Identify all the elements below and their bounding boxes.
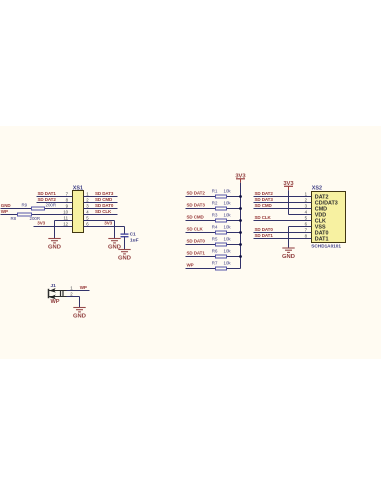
svg-text:R1: R1 [212, 189, 218, 194]
pin name CMD [315, 206, 327, 212]
svg-text:SCHD1A0101: SCHD1A0101 [311, 244, 341, 249]
pin name DAT0 [315, 230, 329, 236]
net label SD DAT2 [38, 197, 57, 202]
resistor R9 200R [22, 202, 57, 210]
svg-text:XS1: XS1 [73, 185, 83, 191]
net label SD DAT1 [38, 191, 57, 196]
connector XS1 [73, 185, 84, 232]
resistor R7 10k [212, 261, 232, 270]
wire net SD_DAT1 to XS1 pin 7 [37, 196, 73, 198]
pin number 1 of XS2 [305, 191, 308, 196]
svg-text:GND: GND [282, 254, 295, 260]
wire net SD_CMD to XS2 pin 3 [254, 208, 312, 210]
ground GND at XS1 pin 11 [48, 239, 61, 251]
net label WP mid [187, 263, 194, 268]
wire J1 pin 2 to ground [67, 297, 80, 308]
pin number 7 of XS2 [305, 227, 308, 232]
svg-text:SD DAT2: SD DAT2 [255, 191, 274, 196]
junction dot R2 to bus [239, 207, 242, 210]
net label SD DAT1 mid [187, 251, 206, 256]
wire net SD_DAT0 to XS2 pin 7 [254, 232, 312, 234]
wire XS1 pin 3 net SD_DAT0 [84, 208, 118, 210]
svg-text:SD DAT0: SD DAT0 [95, 203, 114, 208]
svg-text:GND: GND [118, 256, 131, 262]
svg-text:GND: GND [48, 245, 61, 251]
svg-text:R8: R8 [11, 216, 17, 221]
junction dot R4 to bus [239, 231, 242, 234]
svg-text:SD DAT0: SD DAT0 [187, 239, 206, 244]
pin number 7 [66, 191, 69, 196]
net label SD CLK [95, 209, 112, 214]
resistor R6 10k [212, 249, 232, 258]
net label SD DAT0 mid [187, 239, 206, 244]
switch J1 write protect [49, 283, 67, 299]
wire net SD_CMD to R3 [186, 220, 241, 222]
wire net SD_DAT3 to R2 [186, 208, 241, 210]
svg-text:10k: 10k [224, 261, 232, 266]
svg-text:1uF: 1uF [130, 237, 139, 243]
svg-text:R2: R2 [212, 201, 218, 206]
svg-text:J1: J1 [51, 283, 57, 289]
svg-text:SD CMD: SD CMD [187, 215, 205, 220]
svg-text:3V3: 3V3 [37, 221, 45, 226]
ground GND below XS2 [282, 248, 295, 260]
svg-text:10k: 10k [224, 237, 232, 242]
wire net SD_DAT2 to XS2 pin 1 [254, 196, 312, 198]
wire net SD_DAT0 to R5 [186, 244, 241, 246]
wire J1 pin 1 net WP [67, 290, 90, 292]
svg-text:R6: R6 [212, 249, 218, 254]
label WP below J1 [51, 299, 60, 305]
pin number 8 [66, 197, 69, 202]
ground GND below J1 [73, 308, 86, 320]
pin name CLK [315, 218, 326, 224]
svg-text:SD DAT0: SD DAT0 [255, 227, 274, 232]
connector XS2 [311, 186, 345, 249]
svg-text:SD DAT2: SD DAT2 [187, 191, 206, 196]
pin number 3 [86, 203, 89, 208]
svg-text:SD DAT1: SD DAT1 [255, 233, 274, 238]
capacitor C1 1uF [121, 232, 139, 244]
net label SD DAT1 right [255, 233, 274, 238]
resistor R2 10k [212, 201, 232, 210]
pin number 9 [66, 203, 69, 208]
pin number 6 [86, 221, 89, 226]
svg-text:GND: GND [1, 203, 12, 208]
pin number 6 of XS2 [305, 221, 308, 226]
svg-text:WP: WP [1, 209, 8, 214]
net label SD CMD right [255, 203, 273, 208]
net label WP at J1 [80, 285, 87, 290]
net label SD DAT0 right [255, 227, 274, 232]
svg-text:SD DAT1: SD DAT1 [187, 251, 206, 256]
wire XS1 pin 6 net 3V3 to capacitor C1 [84, 227, 125, 234]
svg-text:DAT1: DAT1 [315, 236, 329, 242]
pin number 3 of XS2 [305, 203, 308, 208]
net label 3V3 right [104, 221, 112, 226]
wire XS1 pin 2 net SD_CMD [84, 202, 118, 204]
pin number 12 [63, 221, 68, 226]
svg-text:10k: 10k [224, 213, 232, 218]
wire WP through R8 to XS1 pin 10 [1, 214, 73, 216]
svg-text:SD DAT3: SD DAT3 [187, 203, 206, 208]
svg-text:SD DAT2: SD DAT2 [38, 197, 57, 202]
pin number 2 of XS2 [305, 197, 308, 202]
pin number 10 [63, 209, 68, 214]
pin number 1 [86, 191, 89, 196]
svg-text:12: 12 [63, 221, 68, 226]
svg-text:11: 11 [64, 215, 69, 220]
net label SD DAT3 right [255, 197, 274, 202]
svg-text:SD CMD: SD CMD [95, 197, 113, 202]
svg-text:WP: WP [187, 263, 194, 268]
resistor R4 10k [212, 225, 232, 234]
svg-text:WP: WP [51, 299, 60, 305]
svg-text:SD CLK: SD CLK [95, 209, 112, 214]
net label SD CLK right [255, 215, 272, 220]
power port 3V3 above pull-up resistors [235, 173, 246, 182]
svg-text:10k: 10k [224, 201, 232, 206]
resistor R8 200R [11, 213, 41, 221]
wire GND through R9 to XS1 pin 9 [1, 208, 73, 210]
wire net SD_DAT1 to R6 [186, 256, 241, 258]
svg-text:R3: R3 [212, 213, 218, 218]
wire XS1 pin 11 to ground [55, 221, 73, 239]
pin name DAT1 [315, 236, 329, 242]
svg-text:SD DAT1: SD DAT1 [38, 191, 57, 196]
pin number 1 of J1 [70, 285, 73, 290]
svg-text:WP: WP [80, 285, 87, 290]
svg-text:10k: 10k [224, 189, 232, 194]
net label SD CMD [95, 197, 113, 202]
resistor R1 10k [212, 189, 232, 198]
junction dot R1 to bus [239, 195, 242, 198]
power port 3V3 at XS2 [283, 181, 294, 190]
junction dot R5 to bus [239, 243, 242, 246]
wire net 3V3 to XS1 pin 12 [34, 226, 73, 228]
wire net SD_CLK to R4 [186, 232, 241, 234]
svg-text:R7: R7 [212, 261, 218, 266]
pin number 5 [86, 215, 89, 220]
pin name VSS [315, 224, 326, 230]
pin number 8 of XS2 [305, 233, 308, 238]
net label SD CLK mid [187, 227, 204, 232]
wire net SD_DAT3 to XS2 pin 2 [254, 202, 312, 204]
pin name VDD [315, 212, 326, 218]
wire XS1 pin 1 net SD_DAT3 [84, 196, 118, 198]
net label GND [1, 203, 12, 208]
svg-text:10k: 10k [224, 249, 232, 254]
net label SD DAT0 [95, 203, 114, 208]
pin number 4 [86, 209, 89, 214]
net label WP [1, 209, 8, 214]
pin number 11 [64, 215, 69, 220]
net label SD DAT2 mid [187, 191, 206, 196]
net label SD DAT3 [95, 191, 114, 196]
wire net SD_CLK to XS2 pin 5 [254, 220, 312, 222]
svg-text:3V3: 3V3 [104, 221, 112, 226]
svg-text:10: 10 [63, 209, 68, 214]
pin number 4 of XS2 [305, 209, 308, 214]
svg-text:R5: R5 [212, 237, 218, 242]
pin name CD/DAT3 [315, 200, 338, 206]
svg-text:10k: 10k [224, 225, 232, 230]
pin number 2 [86, 197, 89, 202]
svg-text:GND: GND [73, 314, 86, 320]
wire XS1 pin 4 net SD_CLK [84, 214, 118, 216]
svg-text:C1: C1 [130, 232, 136, 238]
wire C1 to ground [124, 237, 126, 250]
pin number 2 of J1 [70, 291, 73, 296]
resistor R3 10k [212, 213, 232, 222]
ground GND below C1 [118, 250, 131, 262]
wire net SD_DAT1 to XS2 pin 8 [254, 238, 312, 240]
ground GND at XS1 pin 5 [108, 239, 121, 251]
svg-text:SD CLK: SD CLK [187, 227, 204, 232]
svg-text:SD CLK: SD CLK [255, 215, 272, 220]
net label SD DAT2 right [255, 191, 274, 196]
resistor R5 10k [212, 237, 232, 246]
junction dot R3 to bus [239, 219, 242, 222]
svg-text:R9: R9 [22, 202, 28, 207]
svg-text:XS2: XS2 [312, 186, 322, 192]
net label SD CMD mid [187, 215, 205, 220]
net label 3V3 left [37, 221, 45, 226]
svg-text:SD CMD: SD CMD [255, 203, 273, 208]
wire 3V3 bus vertical [240, 183, 242, 269]
wire XS2 pin 6 VSS to ground [289, 227, 312, 249]
svg-text:SD DAT3: SD DAT3 [95, 191, 114, 196]
wire net WP to R7 [186, 268, 241, 270]
svg-text:SD DAT3: SD DAT3 [255, 197, 274, 202]
pin number 5 of XS2 [305, 215, 308, 220]
junction dot R6 to bus [239, 255, 242, 258]
wire net SD_DAT2 to R1 [186, 196, 241, 198]
wire net SD_DAT2 to XS1 pin 8 [37, 202, 73, 204]
wire XS1 pin 5 to ground [84, 221, 115, 239]
svg-text:200R: 200R [46, 203, 57, 208]
pin name DAT2 [315, 194, 329, 200]
wire 3V3 to XS2 pin 4 VDD [289, 190, 312, 214]
net label SD DAT3 mid [187, 203, 206, 208]
svg-text:R4: R4 [212, 225, 218, 230]
